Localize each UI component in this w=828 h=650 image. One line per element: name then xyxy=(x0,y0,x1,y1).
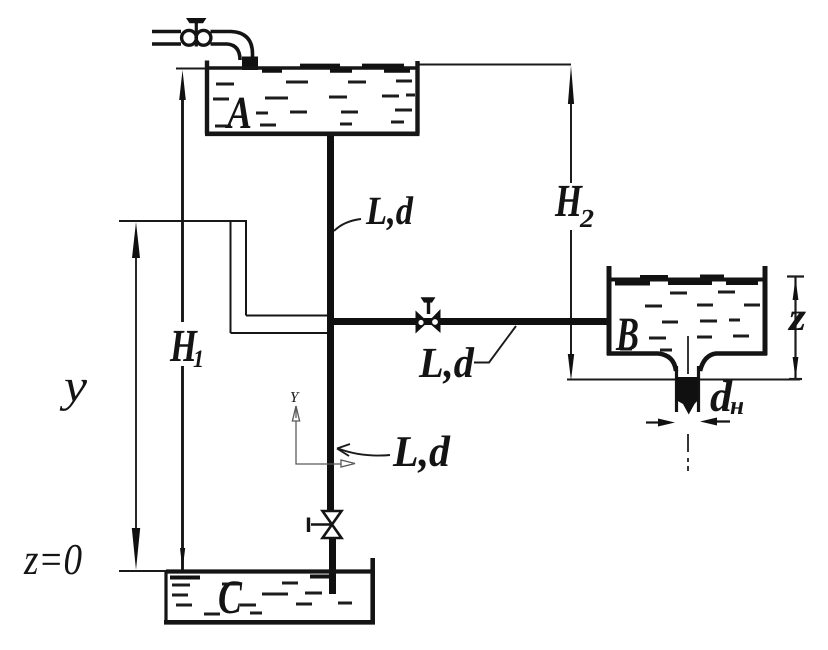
svg-text:C: C xyxy=(218,571,243,624)
svg-text:2: 2 xyxy=(579,204,594,233)
svg-text:A: A xyxy=(225,87,252,138)
svg-text:н: н xyxy=(730,391,744,420)
svg-text:H: H xyxy=(554,175,583,226)
svg-text:y: y xyxy=(59,360,87,411)
svg-text:z=0: z=0 xyxy=(23,535,82,584)
svg-text:L,d: L,d xyxy=(418,340,475,387)
svg-text:L,d: L,d xyxy=(392,427,451,476)
svg-text:L,d: L,d xyxy=(365,188,414,233)
svg-text:B: B xyxy=(615,308,639,361)
svg-text:Y: Y xyxy=(290,390,300,406)
svg-text:z: z xyxy=(787,294,807,339)
svg-text:1: 1 xyxy=(193,346,204,373)
